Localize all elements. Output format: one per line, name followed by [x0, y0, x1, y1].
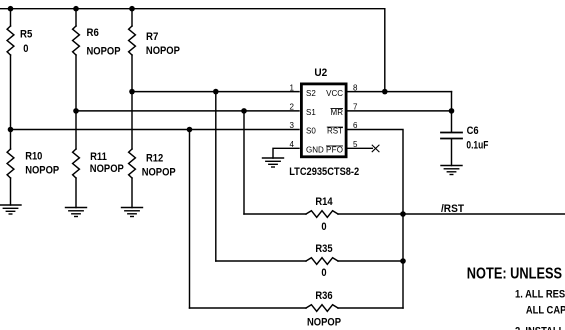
svg-text:3: 3: [290, 121, 295, 130]
node S1/R11: [73, 108, 79, 114]
svg-text:/RST: /RST: [441, 203, 464, 215]
svg-text:R35: R35: [315, 243, 332, 255]
resistor R6 zigzag: [73, 26, 80, 55]
svg-text:0.1uF: 0.1uF: [466, 139, 488, 151]
resistor R11 zigzag: [73, 149, 80, 178]
resistor R7 zigzag: [129, 26, 136, 55]
resistor R35 zigzag: [306, 258, 338, 265]
wire top rail: [0, 9, 385, 92]
svg-text:0: 0: [321, 221, 326, 233]
svg-text:R5: R5: [20, 29, 32, 41]
svg-text:8: 8: [353, 83, 358, 92]
svg-text:7: 7: [353, 103, 358, 112]
wire net S1: [76, 110, 299, 112]
node VCC/top rail: [382, 89, 388, 95]
svg-text:ALL CAPACITORS ARE IN MICROFAR: ALL CAPACITORS ARE IN MICROFARADS.: [526, 305, 565, 317]
svg-text:1. ALL RESISTORS ARE IN OHMS,: 1. ALL RESISTORS ARE IN OHMS,: [515, 288, 565, 300]
svg-text:S1: S1: [306, 108, 316, 117]
resistor R14 zigzag: [306, 211, 338, 218]
wire R14 row: [244, 213, 306, 215]
wire column R5/R10: [10, 9, 12, 26]
svg-text:MR: MR: [331, 108, 344, 117]
wire pin8 VCC: [348, 91, 452, 93]
wire C6 branch: [451, 92, 453, 132]
svg-text:S0: S0: [306, 127, 316, 136]
ground under pin4: [263, 158, 284, 167]
svg-text:2: 2: [290, 103, 295, 112]
node MR/C6: [449, 108, 455, 114]
resistor R12 zigzag: [129, 149, 136, 178]
wire R36 row: [190, 307, 307, 309]
node S0/R10: [8, 127, 14, 133]
svg-text:C6: C6: [467, 125, 479, 137]
node S2/R35: [213, 89, 219, 95]
svg-text:R12: R12: [146, 152, 163, 164]
svg-text:4: 4: [290, 140, 295, 149]
wire net /RST out: [403, 213, 565, 215]
svg-text:0: 0: [321, 267, 326, 279]
ground under C6: [441, 166, 462, 175]
wire net S0: [11, 129, 300, 131]
svg-text:NOPOP: NOPOP: [90, 163, 124, 175]
node top/R7: [129, 6, 135, 12]
node S2/R12: [129, 89, 135, 95]
wire pin6 RST to vertical: [348, 130, 403, 309]
node RST/R14: [400, 211, 406, 217]
svg-text:0: 0: [23, 43, 28, 55]
svg-text:PFO: PFO: [326, 146, 343, 155]
svg-text:R36: R36: [315, 290, 332, 302]
wire R35 left vertical to S2: [215, 92, 217, 261]
wire pin5 PFO stub: [348, 147, 372, 149]
svg-text:NOPOP: NOPOP: [87, 46, 121, 58]
resistor R5 zigzag: [7, 26, 14, 55]
svg-text:VCC: VCC: [326, 89, 343, 98]
svg-text:2. INSTALL SHUNTS AS SHOWN.: 2. INSTALL SHUNTS AS SHOWN.: [515, 325, 565, 330]
svg-text:R11: R11: [90, 151, 107, 163]
svg-text:NOPOP: NOPOP: [146, 45, 180, 57]
ground under R12: [122, 208, 143, 217]
svg-text:U2: U2: [314, 67, 327, 79]
svg-text:R6: R6: [87, 27, 99, 39]
svg-text:1: 1: [290, 83, 295, 92]
IC U2 body: [301, 84, 346, 157]
wire R35 row: [216, 260, 306, 262]
wire pin4 GND: [273, 148, 299, 158]
resistor R10 zigzag: [7, 149, 14, 178]
svg-text:NOTE: UNLESS OTHERWISE SPECIFI: NOTE: UNLESS OTHERWISE SPECIFIED:: [467, 266, 565, 283]
node top/R5: [8, 6, 14, 12]
wire R36 left vertical to S0: [189, 130, 191, 309]
wire net S2: [132, 91, 299, 93]
ground under R11: [66, 208, 87, 217]
wire R14 left vertical to S1: [243, 111, 245, 214]
node RST/R35: [400, 258, 406, 264]
svg-text:S2: S2: [306, 89, 316, 98]
no-connect X on pin 5: [372, 145, 379, 152]
svg-text:R14: R14: [315, 196, 333, 208]
svg-text:R10: R10: [25, 150, 42, 162]
capacitor C6 plates: [441, 133, 462, 139]
node top/R6: [73, 6, 79, 12]
wire pin7 MR: [348, 110, 452, 112]
svg-text:6: 6: [353, 121, 358, 130]
svg-text:NOPOP: NOPOP: [25, 165, 59, 177]
wire column R6/R11: [75, 9, 77, 26]
svg-text:R7: R7: [146, 31, 158, 43]
node S0/R36: [187, 127, 193, 133]
ground under R10: [0, 205, 21, 214]
svg-text:LTC2935CTS8-2: LTC2935CTS8-2: [289, 166, 359, 178]
svg-text:NOPOP: NOPOP: [307, 317, 341, 329]
wire column R7/R12: [131, 9, 133, 26]
svg-text:5: 5: [353, 140, 358, 149]
svg-text:NOPOP: NOPOP: [142, 167, 176, 179]
node S1/R14: [241, 108, 247, 114]
svg-text:GND: GND: [306, 146, 324, 155]
resistor R36 zigzag: [306, 305, 338, 312]
svg-text:RST: RST: [327, 127, 343, 136]
